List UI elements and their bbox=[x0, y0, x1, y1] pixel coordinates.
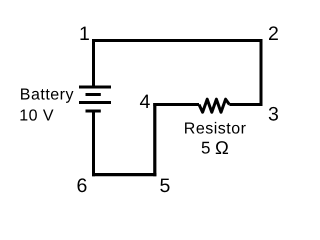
wire: left side from node 6 up to battery bottom lead bbox=[92, 111, 95, 176]
svg-text:6: 6 bbox=[77, 175, 88, 197]
svg-text:2: 2 bbox=[268, 23, 279, 45]
svg-text:5: 5 bbox=[201, 139, 210, 158]
svg-text:4: 4 bbox=[140, 91, 151, 113]
battery plate short bottom bbox=[86, 110, 101, 113]
svg-text:Battery: Battery bbox=[20, 87, 74, 104]
wire: resistor left lead from node 4 corner to zigzag bbox=[153, 103, 199, 106]
wire: right side from node 2 down to node 3 bbox=[260, 39, 263, 106]
svg-text:5: 5 bbox=[160, 175, 171, 197]
svg-text:Resistor: Resistor bbox=[184, 121, 247, 138]
svg-text:3: 3 bbox=[268, 104, 279, 126]
svg-text:Ω: Ω bbox=[215, 137, 229, 158]
wire: from node 4 down to node 5 bbox=[153, 103, 156, 176]
resistor R zigzag body bbox=[199, 99, 229, 112]
svg-text:10 V: 10 V bbox=[19, 108, 54, 125]
wire: battery top lead up to node 1 corner bbox=[92, 39, 95, 88]
wire: resistor right lead from zigzag to node 3 bbox=[229, 103, 262, 106]
wire: top wire from node 1 to node 2 bbox=[92, 39, 263, 42]
battery plate long top bbox=[79, 86, 111, 89]
wire: bottom wire from node 6 to node 5 bbox=[92, 173, 156, 176]
svg-text:1: 1 bbox=[79, 23, 90, 45]
battery plate short upper bbox=[86, 93, 101, 96]
battery plate long lower bbox=[79, 101, 111, 104]
